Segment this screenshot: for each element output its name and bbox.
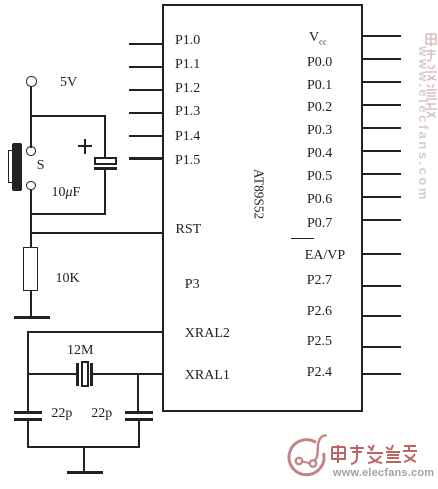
pin label P0.1 [307,79,332,93]
pin P1.3 stub [129,112,163,114]
wire XRAL1 rail left segment [27,373,77,375]
pin label P0.5 [307,170,332,184]
pin P2.4 stub [362,373,401,375]
pin label P2.5 [307,335,332,349]
label S [37,159,45,173]
pin P0.1 stub [362,81,401,83]
5V terminal circle [26,76,37,87]
pin label P0.7 [307,217,332,231]
pin label P1.3 [175,105,200,119]
wire 5V down [30,86,32,116]
watermark url bottom [333,467,434,479]
label 12M [67,344,93,358]
wire oscillator bottom rail [27,446,140,448]
pin P1.1 stub [129,66,163,68]
pin label XRAL2 [185,327,230,341]
pin label P1.0 [175,34,200,48]
pin label EA/VP [305,249,345,263]
pin P0.4 stub [362,150,401,152]
pin label P0.2 [307,101,332,115]
pin P2.7 stub [362,285,401,287]
pin P1.0 stub [129,43,163,45]
capacitor C1 10uF top plate [94,157,117,165]
watermark vertical right edge url [416,46,431,202]
pin P2.6 stub [362,315,401,317]
pin P0.2 stub [362,104,401,106]
EA overline bar [291,238,314,240]
plus sign of C1 [78,145,92,147]
watermark text dianzifashaoyou bottom [330,443,418,465]
wire rail to upper contact [30,115,32,148]
switch S lower contact circle [26,181,36,191]
pin EA/VP stub [362,253,401,255]
pin P2.5 stub [362,346,401,348]
wire left cap lower lead [27,421,29,448]
pin P0.6 stub [362,196,401,198]
label 5V [60,76,77,90]
pin P0.5 stub [362,173,401,175]
wire XRAL2 rail [27,331,163,333]
pin P1.2 stub [129,89,163,91]
pin P0.3 stub [362,127,401,129]
pin label P1.1 [175,58,200,72]
pin label P0.6 [307,193,332,207]
pin label P0.3 [307,124,332,138]
pin label P1.4 [175,130,200,144]
IC label AT89S52 [252,169,265,219]
wire ground stem [83,447,85,472]
IC U1 AT89S52 body [162,4,363,412]
pin P0.0 stub [362,58,401,60]
label 22p left [51,407,72,421]
capacitor C3 22p right plates [125,411,153,414]
wire RST rail [30,232,162,234]
ground under resistor [14,316,50,319]
wire crystal loop left vertical [27,331,29,412]
ground under oscillator [67,471,104,474]
capacitor C1 bottom plate [94,167,117,169]
crystal Y1 right plate [90,363,93,386]
pin label P1.5 [175,154,200,168]
pin Vcc stub [362,35,401,37]
pin label P0.0 [307,56,332,70]
label 22p right [91,407,112,421]
wire top rail [30,115,106,117]
pin label P1.2 [175,82,200,96]
switch S button black bar [8,150,13,183]
wire cap branch down [104,115,106,158]
watermark vertical right edge chinese [424,32,438,118]
pin label RST [176,223,202,237]
pin P0.7 stub [362,219,401,221]
wire lower contact down to RST rail and resistor [30,190,32,247]
pin P1.4 stub [129,135,163,137]
pin label P2.4 [307,366,332,380]
pin label P2.6 [307,305,332,319]
wire reset bottom rail [30,213,106,215]
pin label P3 [185,278,200,292]
wire right cap drop [137,373,139,412]
label 10uF [52,186,81,200]
pin P1.5 stub [129,157,163,159]
capacitor C2 22p left plates [14,411,42,414]
pin label XRAL1 [185,369,230,383]
pin label P2.7 [307,274,332,288]
pin label Vcc [309,31,327,47]
crystal Y1 left plate [76,363,79,386]
label 10K [56,272,80,286]
watermark logo bottom right [287,434,333,482]
pin label P0.4 [307,147,332,161]
wire XRAL1 rail right segment [93,373,163,375]
switch S upper contact circle [26,146,36,156]
resistor R1 10K body [23,247,38,291]
wire resistor to ground [30,291,32,317]
wire right cap lower lead [138,421,140,448]
crystal Y1 body [81,361,90,387]
wire cap bottom down [104,170,106,213]
